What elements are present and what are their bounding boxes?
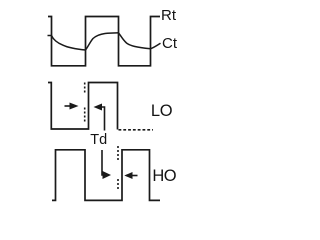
svg-text:LO: LO — [151, 102, 173, 120]
wire LO square wave — [48, 83, 118, 130]
arrow dead-time left-pointing (HO) — [124, 172, 132, 179]
arrow dead-time right-pointing (LO) — [65, 105, 72, 107]
svg-text:Td: Td — [90, 132, 107, 148]
arrow dead-time left-pointing (LO) with callout bend to Td — [94, 104, 103, 111]
arrow Td callout down-then-right into HO dead-time gap — [102, 150, 104, 175]
node dotted edge marker (LO falling edge) — [117, 146, 119, 161]
svg-text:Ct: Ct — [162, 35, 178, 52]
wire HO square wave — [52, 150, 160, 201]
wire LO dashed low-level continuation — [119, 129, 154, 131]
node dotted edge marker (Rt rising edge) — [84, 83, 86, 94]
svg-text:HO: HO — [152, 167, 176, 185]
svg-text:Rt: Rt — [161, 7, 177, 24]
wire Ct oscillator curve — [48, 33, 161, 50]
wire Rt square wave — [48, 17, 160, 66]
